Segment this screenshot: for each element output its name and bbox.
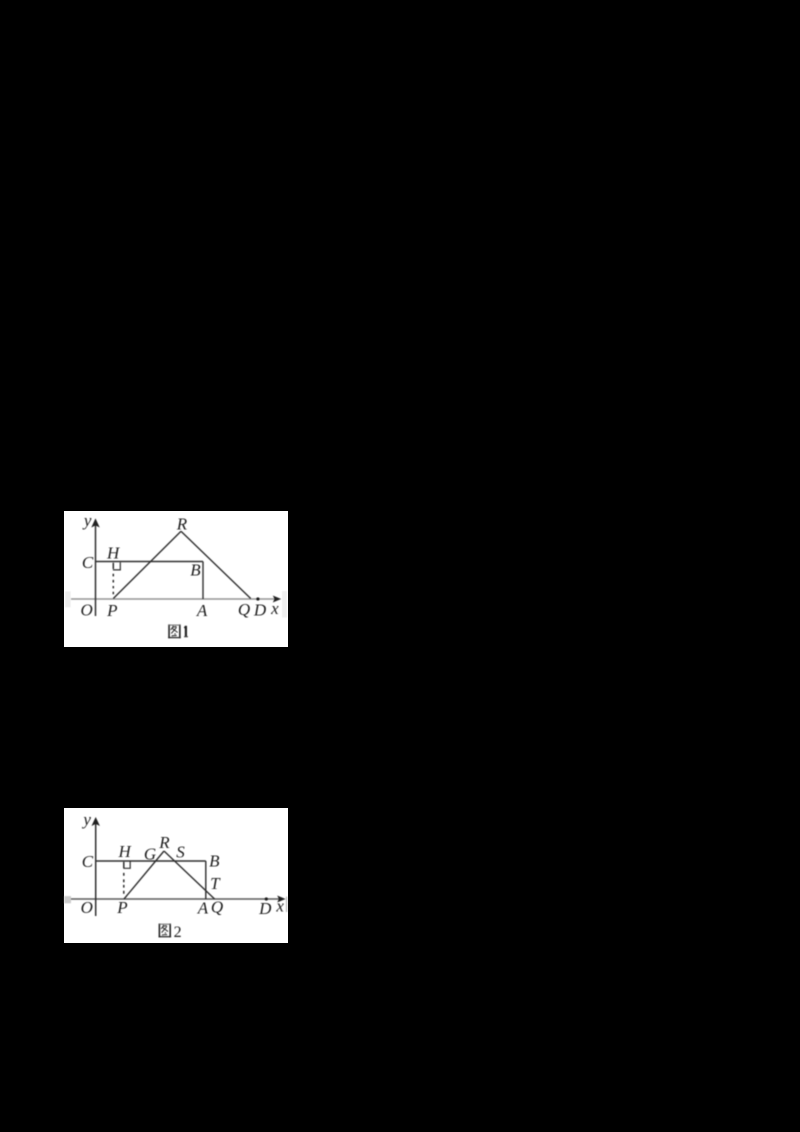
svg-text:R: R: [158, 833, 170, 852]
svg-text:Q: Q: [238, 600, 250, 619]
svg-text:x: x: [275, 896, 284, 915]
svg-text:Q: Q: [211, 898, 223, 917]
svg-text:2: 2: [174, 924, 182, 941]
svg-text:G: G: [144, 844, 156, 863]
svg-text:P: P: [116, 898, 127, 917]
svg-text:H: H: [117, 842, 132, 861]
svg-text:O: O: [81, 898, 93, 917]
svg-text:C: C: [82, 553, 94, 572]
svg-text:D: D: [258, 899, 272, 918]
svg-text:x: x: [270, 599, 279, 618]
svg-text:A: A: [197, 899, 209, 918]
svg-text:O: O: [80, 601, 92, 620]
svg-text:B: B: [190, 561, 201, 580]
svg-text:D: D: [253, 601, 267, 620]
svg-text:H: H: [106, 544, 121, 563]
svg-text:T: T: [210, 874, 221, 893]
svg-text:y: y: [82, 511, 92, 530]
svg-text:y: y: [81, 810, 91, 829]
svg-text:R: R: [176, 515, 188, 534]
svg-text:C: C: [82, 852, 94, 871]
svg-text:A: A: [196, 601, 208, 620]
svg-text:B: B: [209, 852, 220, 871]
svg-text:P: P: [106, 601, 117, 620]
svg-text:S: S: [176, 843, 185, 862]
